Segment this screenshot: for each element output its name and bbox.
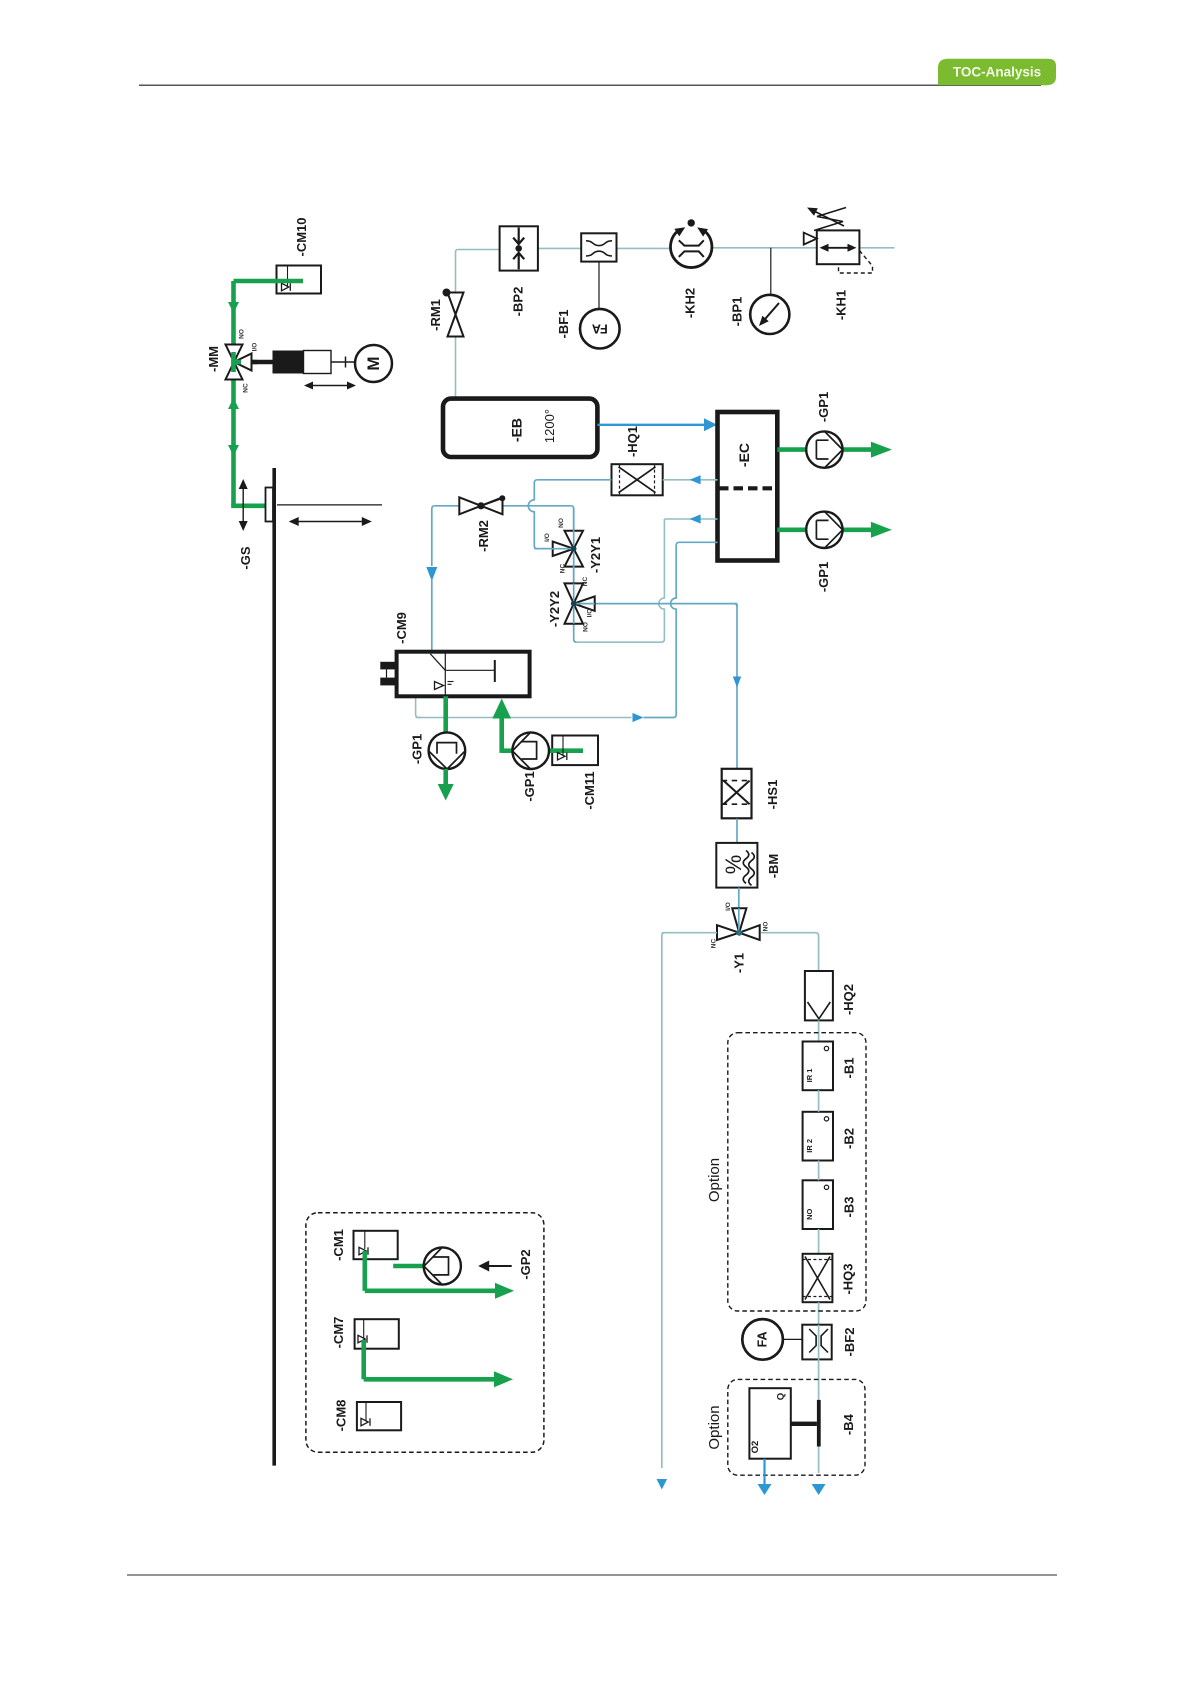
svg-text:-CM9: -CM9 (394, 612, 409, 644)
svg-text:%: % (721, 855, 746, 875)
svg-text:-HS1: -HS1 (765, 780, 780, 810)
svg-text:NO: NO (583, 622, 590, 632)
svg-text:-BP1: -BP1 (730, 297, 745, 327)
svg-text:-Y2Y2: -Y2Y2 (547, 591, 562, 627)
svg-text:NO: NO (239, 329, 246, 339)
svg-text:-BP2: -BP2 (510, 287, 525, 317)
svg-text:NC: NC (243, 383, 250, 393)
svg-text:NO: NO (558, 518, 565, 528)
svg-text:FA: FA (592, 322, 608, 336)
svg-text:-HQ2: -HQ2 (841, 984, 856, 1015)
svg-text:Option: Option (706, 1405, 723, 1449)
svg-text:TOC-Analysis: TOC-Analysis (953, 65, 1041, 80)
svg-text:-CM7: -CM7 (331, 1317, 346, 1349)
svg-text:Q: Q (776, 1393, 787, 1400)
svg-text:I/O: I/O (544, 533, 551, 542)
svg-text:-BM: -BM (766, 854, 781, 879)
svg-text:-MM: -MM (206, 346, 221, 372)
svg-text:-GP1: -GP1 (522, 771, 537, 801)
svg-text:-Y1: -Y1 (731, 953, 746, 973)
svg-text:-GS: -GS (238, 546, 253, 569)
svg-text:-BF2: -BF2 (842, 1328, 857, 1357)
svg-text:I/O: I/O (252, 343, 259, 352)
svg-text:-CM8: -CM8 (333, 1400, 348, 1432)
svg-text:M: M (364, 356, 383, 370)
svg-text:-GP1: -GP1 (816, 392, 831, 422)
svg-text:NO: NO (763, 922, 770, 932)
svg-text:-BF1: -BF1 (556, 310, 571, 339)
svg-text:-GP1: -GP1 (410, 734, 425, 764)
svg-text:FA: FA (756, 1331, 770, 1347)
svg-text:Option: Option (706, 1158, 723, 1202)
svg-text:-HQ1: -HQ1 (625, 426, 640, 457)
svg-text:-CM10: -CM10 (294, 217, 309, 256)
svg-text:IR 1: IR 1 (805, 1069, 814, 1083)
svg-text:NO: NO (805, 1209, 814, 1220)
svg-text:-Y2Y1: -Y2Y1 (588, 537, 603, 573)
svg-text:-GP2: -GP2 (518, 1249, 533, 1279)
svg-text:NC: NC (560, 564, 567, 574)
svg-text:-EB: -EB (509, 418, 525, 442)
svg-text:-RM2: -RM2 (476, 520, 491, 552)
svg-text:-B2: -B2 (841, 1128, 856, 1149)
svg-text:-GP1: -GP1 (816, 562, 831, 592)
svg-text:-CM1: -CM1 (331, 1229, 346, 1261)
svg-text:I/O: I/O (725, 902, 732, 911)
svg-text:-EC: -EC (736, 443, 752, 467)
svg-text:-RM1: -RM1 (428, 299, 443, 331)
svg-text:-B4: -B4 (841, 1413, 856, 1435)
svg-text:-B1: -B1 (841, 1058, 856, 1079)
svg-text:I/O: I/O (587, 609, 594, 618)
svg-text:1200°: 1200° (542, 409, 557, 443)
svg-text:-HQ3: -HQ3 (841, 1263, 856, 1294)
svg-text:-B3: -B3 (841, 1197, 856, 1218)
svg-text:NC: NC (582, 577, 589, 587)
svg-text:-CM11: -CM11 (582, 771, 597, 809)
svg-text:O2: O2 (750, 1441, 761, 1454)
svg-text:-KH1: -KH1 (834, 290, 849, 320)
svg-text:IR 2: IR 2 (805, 1139, 814, 1153)
svg-text:NC: NC (711, 939, 718, 949)
svg-text:-KH2: -KH2 (683, 288, 698, 318)
